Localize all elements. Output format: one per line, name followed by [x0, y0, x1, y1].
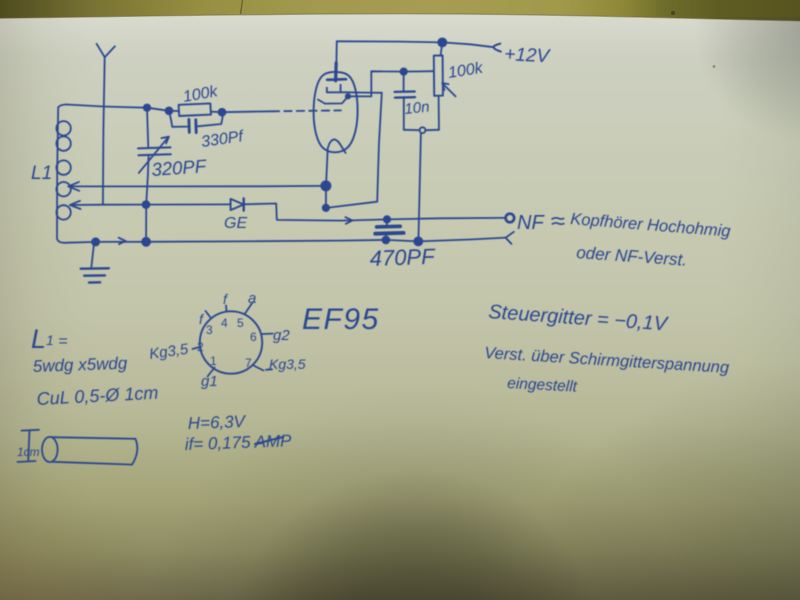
node: coil bottom — [92, 238, 99, 245]
wire: diode to NF terminal — [244, 204, 506, 221]
arrow tick on ground bus — [119, 238, 126, 245]
svg-text:if= 0,175 AMP: if= 0,175 AMP — [184, 431, 292, 454]
node: ground bus / 10n branch — [414, 237, 422, 245]
socket: circle — [200, 311, 262, 373]
variable capacitor 320PF arrow — [139, 137, 169, 173]
svg-text:GE: GE — [224, 215, 247, 232]
wire: grid lead dashed to tube — [272, 109, 341, 112]
socket pin numbers — [197, 316, 257, 370]
node: 100k left — [166, 107, 173, 114]
wire: 10n/pot bottom bar — [404, 129, 439, 131]
svg-text:3: 3 — [206, 323, 213, 337]
capacitor 10n plates — [395, 92, 415, 98]
node: 320pF bottom — [142, 238, 150, 246]
antenna — [97, 44, 115, 205]
svg-text:+12V: +12V — [504, 44, 552, 67]
node: 100k right — [219, 109, 226, 116]
capacitor 330pf left lead — [169, 111, 187, 127]
strike on AMP — [255, 437, 283, 444]
wire: grid riser to pot — [371, 71, 433, 96]
svg-text:g1: g1 — [201, 373, 218, 390]
svg-text:470PF: 470PF — [369, 244, 436, 271]
svg-text:EF95: EF95 — [302, 303, 380, 336]
wire: tap 2 to diode — [70, 203, 231, 206]
capacitor 10n bottom lead — [403, 97, 405, 129]
node: 320pF top — [144, 105, 150, 111]
node: 10n top — [401, 68, 407, 74]
wire: cathode to coil tap 1 — [68, 185, 326, 188]
potentiometer wiper arrow — [442, 83, 455, 96]
tube cathode lead — [326, 152, 328, 208]
tube control grid — [318, 96, 371, 103]
coil L1 — [57, 105, 96, 243]
svg-text:6: 6 — [250, 330, 257, 344]
terminal +12V arrow — [494, 44, 501, 52]
wire: screen to cathode rail — [326, 93, 382, 208]
svg-text:10n: 10n — [404, 98, 431, 118]
svg-text:g2: g2 — [273, 327, 290, 344]
terminal NF lower arrowhead — [506, 232, 514, 244]
svg-text:a: a — [248, 290, 256, 307]
scratch on table — [241, 0, 243, 14]
speck on table — [671, 11, 675, 15]
svg-text:5wdg x5wdg: 5wdg x5wdg — [32, 354, 128, 376]
capacitor 330pf plates — [189, 119, 196, 132]
background: wooden table strip — [0, 0, 800, 21]
capacitor 10n top lead — [403, 72, 405, 92]
approx sign — [552, 218, 565, 225]
speck on paper — [713, 65, 716, 68]
terminal NF circle — [506, 214, 515, 223]
node: +12V / pot top — [438, 38, 446, 46]
svg-text:5: 5 — [237, 316, 244, 330]
svg-text:Kg3,5: Kg3,5 — [269, 356, 306, 372]
svg-text:2: 2 — [197, 340, 204, 354]
variable capacitor 320PF bottom lead — [146, 155, 149, 242]
tube screen grid — [327, 85, 382, 93]
wire: resistor right lead — [211, 111, 222, 114]
node: tap2/320pF — [143, 201, 150, 208]
tube EF95 envelope — [314, 72, 358, 152]
svg-text:1cm: 1cm — [17, 445, 40, 459]
tap 1 arrowhead — [68, 182, 79, 191]
svg-text:7: 7 — [245, 356, 252, 370]
wire: coil top to grid network — [67, 105, 179, 112]
svg-text:NF: NF — [517, 212, 545, 234]
coil sketch cylinder — [42, 437, 58, 462]
svg-text:1: 1 — [210, 354, 217, 368]
tube heater — [327, 139, 345, 152]
wire: ground bus — [96, 238, 506, 242]
variable capacitor 320PF top lead — [147, 108, 148, 148]
wire: anode to +12V — [337, 41, 494, 47]
node: cathode / tap wire — [321, 181, 330, 190]
resistor 100k (grid leak) — [179, 103, 211, 116]
tap 2 arrowhead — [70, 201, 81, 209]
wire: grid lead solid part — [222, 110, 272, 113]
diode GE — [231, 199, 244, 210]
bottom vignette shadows — [0, 150, 800, 600]
paper edge shadow seam — [0, 14, 800, 21]
socket pin stubs — [206, 311, 211, 318]
terminal circle on bottom bar — [420, 127, 426, 133]
arrow tick on NF wire — [345, 217, 352, 224]
svg-text:320PF: 320PF — [151, 155, 209, 180]
tube anode lead — [335, 41, 337, 63]
tube anode plate — [327, 78, 346, 81]
variable capacitor 320PF plates — [138, 147, 171, 155]
capacitor 470PF — [386, 219, 388, 225]
svg-text:L1: L1 — [31, 163, 52, 184]
svg-text:4: 4 — [221, 316, 228, 330]
capacitor 330pf right lead — [198, 113, 224, 127]
coil sketch dimension marks — [18, 430, 40, 462]
svg-text:H=6,3V: H=6,3V — [187, 412, 246, 433]
ground symbol — [91, 242, 94, 267]
potentiometer 100k — [441, 42, 443, 55]
wire: down to ground bus — [418, 133, 421, 241]
